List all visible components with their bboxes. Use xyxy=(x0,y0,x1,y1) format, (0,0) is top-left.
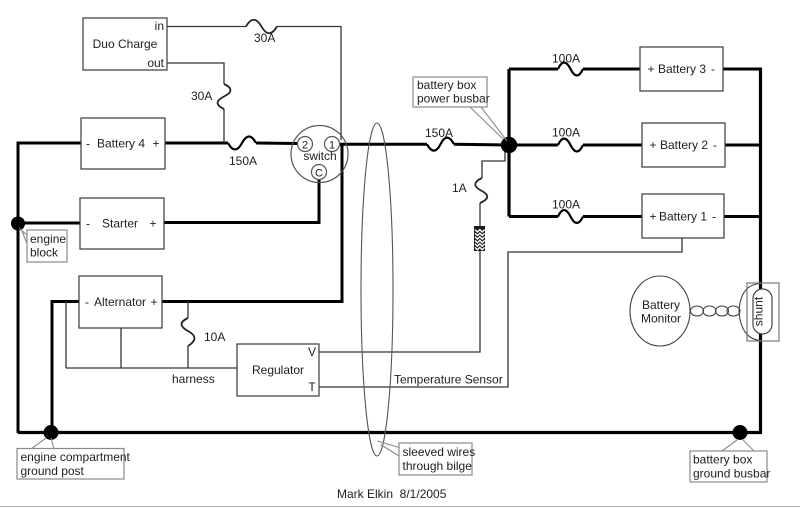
fuse 100A (battery3) xyxy=(558,63,583,76)
wire: alternator positive to riser xyxy=(162,144,342,302)
fuse 150A (battery4 to switch) xyxy=(228,137,256,150)
callout: battery box power busbar xyxy=(413,77,507,141)
temperature sensor element (hatched) xyxy=(475,227,485,251)
fuse 10A xyxy=(182,318,195,346)
box: Duo Charge xyxy=(83,18,167,70)
svg-text:-: - xyxy=(86,217,90,231)
wire: power busbar vertical xyxy=(507,69,510,217)
battery monitor xyxy=(630,276,690,346)
svg-text:Mark Elkin 8/1/2005: Mark Elkin 8/1/2005 xyxy=(337,487,447,501)
svg-text:Battery 3: Battery 3 xyxy=(658,62,706,76)
svg-text:Regulator: Regulator xyxy=(252,363,304,377)
svg-text:Starter: Starter xyxy=(102,217,138,231)
svg-text:+: + xyxy=(649,138,656,152)
svg-text:Battery 1: Battery 1 xyxy=(659,210,707,224)
label: 1A fuse xyxy=(452,181,467,195)
svg-text:+: + xyxy=(152,137,159,151)
sleeved wires ellipse through bilge xyxy=(361,123,393,456)
callout: sleeved wires through bilge xyxy=(378,441,476,475)
svg-text:Battery 4: Battery 4 xyxy=(97,137,145,151)
fuse 150A (main feed) xyxy=(427,138,454,151)
svg-text:+: + xyxy=(647,62,654,76)
node: battery box power busbar xyxy=(501,137,517,153)
wire: battery4 negative run to left bus xyxy=(18,143,81,433)
wire: busbar to battery2 positive xyxy=(509,144,642,147)
svg-text:Battery: Battery xyxy=(642,298,680,312)
switch terminal 2 xyxy=(298,137,313,152)
label: 100A (battery2 fuse) xyxy=(552,126,580,140)
wire: battery4 positive to switch terminal 2 xyxy=(165,142,298,146)
svg-text:sleeved wires: sleeved wires xyxy=(403,445,476,459)
label: 100A (battery3 fuse) xyxy=(552,52,580,66)
wire: duo charge out down to battery4 wire xyxy=(167,63,224,143)
shunt element xyxy=(752,289,773,334)
fuse 30A (duo charge in) xyxy=(246,20,277,34)
svg-text:150A: 150A xyxy=(425,126,453,140)
svg-text:Temperature Sensor: Temperature Sensor xyxy=(394,373,503,387)
wire: switch terminal 1 to power busbar xyxy=(339,143,509,147)
label: author and date xyxy=(337,487,447,501)
svg-text:30A: 30A xyxy=(191,89,212,103)
svg-text:power busbar: power busbar xyxy=(417,92,490,106)
label: 150A (main feed fuse) xyxy=(425,126,453,140)
svg-text:+: + xyxy=(649,210,656,224)
svg-text:-: - xyxy=(713,138,717,152)
svg-text:Battery 2: Battery 2 xyxy=(660,138,708,152)
wire: bottom ground bus xyxy=(18,334,761,433)
svg-text:harness: harness xyxy=(172,372,215,386)
svg-text:out: out xyxy=(147,56,164,70)
svg-text:switch: switch xyxy=(303,149,336,163)
svg-text:1A: 1A xyxy=(452,181,467,195)
svg-text:ground post: ground post xyxy=(21,464,85,478)
node: engine compartment ground post xyxy=(44,425,59,440)
svg-text:battery box: battery box xyxy=(417,78,476,92)
node: engine block xyxy=(11,217,25,231)
box: Battery 4 xyxy=(81,118,165,169)
box: Battery 1 xyxy=(642,194,724,238)
wire: battery3 negative to right bus xyxy=(723,68,762,71)
label: 30A (duo charge out fuse) xyxy=(191,89,212,103)
svg-text:-: - xyxy=(86,137,90,151)
svg-text:shunt: shunt xyxy=(752,296,766,326)
svg-text:150A: 150A xyxy=(229,154,257,168)
label: 30A (duo charge in fuse) xyxy=(254,31,275,45)
box: Alternator xyxy=(79,276,162,328)
fuse 1A xyxy=(475,178,487,203)
svg-text:C: C xyxy=(315,167,323,179)
svg-text:100A: 100A xyxy=(552,52,580,66)
svg-text:-: - xyxy=(85,295,89,309)
wire: duo charge in (thin) with corner down to switch 1 xyxy=(167,27,341,141)
box: Starter xyxy=(80,198,164,249)
wire: battery2 negative to right bus xyxy=(725,144,762,147)
wire: alternator negative down to ground post xyxy=(52,302,79,433)
wire: regulator V sense to busbar via 1A fuse and sensor xyxy=(319,150,505,352)
svg-text:T: T xyxy=(308,380,316,394)
wire: battery1 negative to right bus xyxy=(724,215,762,218)
svg-text:battery box: battery box xyxy=(693,453,752,467)
svg-text:30A: 30A xyxy=(254,31,275,45)
svg-text:V: V xyxy=(308,345,316,359)
svg-text:Duo Charge: Duo Charge xyxy=(93,37,158,51)
node: battery box ground busbar xyxy=(733,425,748,440)
switch terminal C xyxy=(312,165,327,180)
shunt outer box xyxy=(747,283,779,341)
wire: busbar to battery3 positive xyxy=(509,68,640,71)
svg-text:through bilge: through bilge xyxy=(403,459,473,473)
svg-text:block: block xyxy=(30,246,59,260)
label: 100A (battery1 fuse) xyxy=(552,198,580,212)
svg-text:engine: engine xyxy=(30,232,66,246)
callout: battery box ground busbar xyxy=(690,440,770,482)
wire: right ground bus through shunt xyxy=(759,69,762,334)
fuse 100A (battery1) xyxy=(558,210,583,223)
svg-text:100A: 100A xyxy=(552,126,580,140)
svg-text:-: - xyxy=(711,62,715,76)
wire: harness verticals and horizontal xyxy=(66,302,237,369)
wire: starter negative to engine block node xyxy=(18,222,80,225)
svg-text:10A: 10A xyxy=(204,330,225,344)
svg-text:Alternator: Alternator xyxy=(94,295,146,309)
svg-text:+: + xyxy=(149,217,156,231)
callout: engine compartment ground post xyxy=(17,438,131,479)
label: harness xyxy=(172,372,215,386)
svg-text:in: in xyxy=(155,19,164,33)
callout: engine block xyxy=(19,228,67,262)
bottom edge line xyxy=(0,506,800,507)
battery switch body xyxy=(291,126,348,183)
label: Temperature Sensor xyxy=(394,373,503,387)
fuse 30A (duo charge out, vertical) xyxy=(218,84,231,109)
wire: regulator T to battery1 temperature sensor xyxy=(319,238,682,387)
box: Battery 3 xyxy=(640,47,723,91)
switch label xyxy=(303,149,336,163)
switch terminal 1 xyxy=(325,137,340,152)
box: Battery 2 xyxy=(642,123,725,167)
svg-text:Monitor: Monitor xyxy=(641,312,681,326)
svg-text:+: + xyxy=(150,295,157,309)
label: 10A fuse xyxy=(204,330,225,344)
svg-text:100A: 100A xyxy=(552,198,580,212)
wire: 10A fused wire from alternator positive to harness xyxy=(187,302,189,369)
box: Regulator xyxy=(237,344,319,396)
svg-text:-: - xyxy=(712,210,716,224)
svg-text:ground busbar: ground busbar xyxy=(693,467,770,481)
label: 150A (battery4 fuse) xyxy=(229,154,257,168)
svg-text:engine compartment: engine compartment xyxy=(21,450,131,464)
wire: starter positive to switch terminal C xyxy=(164,179,319,223)
wire: busbar to battery1 positive xyxy=(509,215,642,218)
twisted pair from monitor to shunt xyxy=(691,284,763,341)
fuse 100A (battery2) xyxy=(558,139,583,152)
